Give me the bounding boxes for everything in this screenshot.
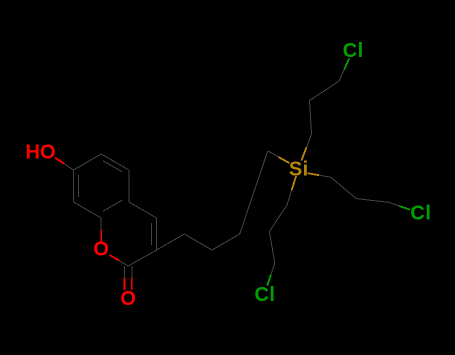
svg-text:Si: Si [289,158,309,180]
svg-text:Cl: Cl [410,203,431,225]
svg-text:O: O [120,288,136,310]
svg-text:O: O [93,239,109,261]
svg-text:HO: HO [26,141,56,163]
svg-text:Cl: Cl [343,40,364,62]
svg-text:Cl: Cl [254,284,275,306]
